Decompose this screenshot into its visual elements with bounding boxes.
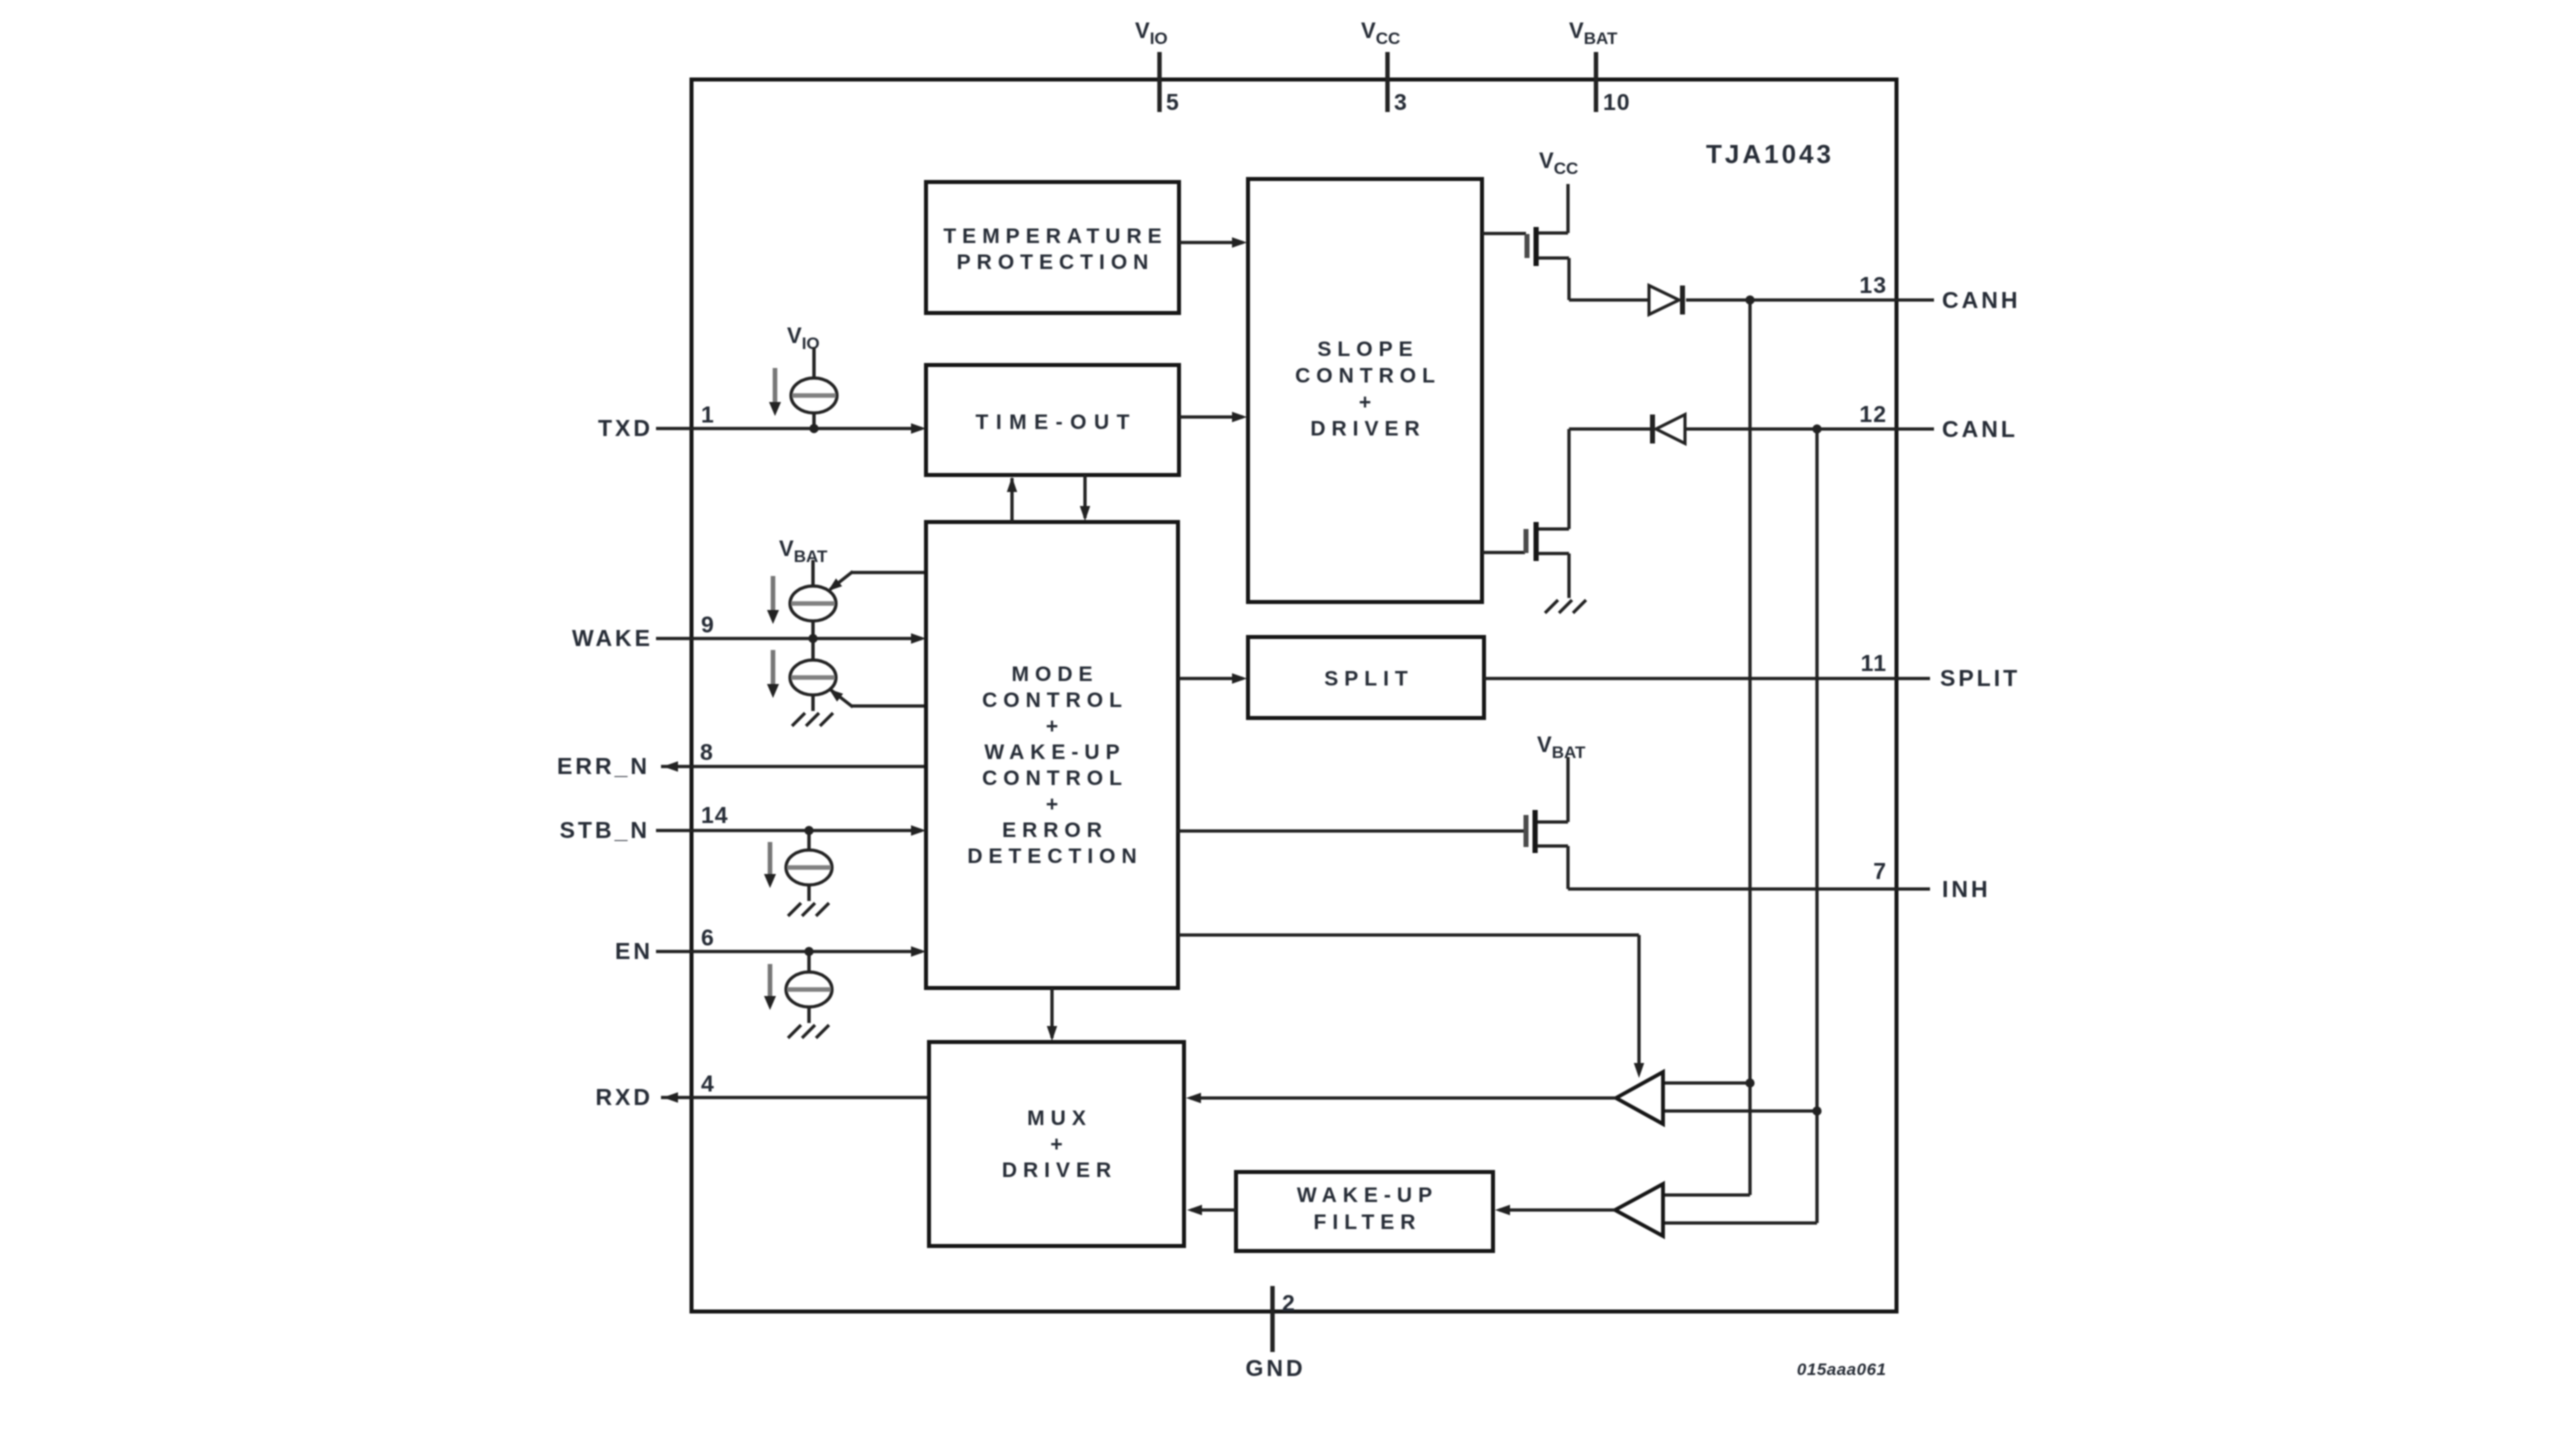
svg-text:CONTROL: CONTROL (982, 767, 1128, 790)
svg-text:WAKE: WAKE (572, 625, 653, 651)
svg-text:GND: GND (1245, 1355, 1305, 1381)
svg-text:SLOPE: SLOPE (1317, 338, 1418, 361)
svg-text:FILTER: FILTER (1314, 1211, 1422, 1234)
svg-text:9: 9 (701, 612, 715, 638)
svg-text:3: 3 (1394, 89, 1408, 115)
svg-text:ERROR: ERROR (1002, 819, 1108, 842)
svg-text:4: 4 (701, 1071, 715, 1097)
svg-text:CONTROL: CONTROL (982, 689, 1128, 712)
svg-text:2: 2 (1282, 1290, 1296, 1316)
svg-text:5: 5 (1166, 89, 1180, 115)
svg-text:14: 14 (701, 802, 729, 828)
svg-text:WAKE-UP: WAKE-UP (984, 741, 1125, 764)
svg-text:CANH: CANH (1942, 287, 2020, 313)
svg-text:MODE: MODE (1012, 663, 1099, 686)
svg-text:STB_N: STB_N (560, 817, 650, 843)
svg-text:11: 11 (1861, 650, 1887, 676)
svg-text:EN: EN (615, 938, 653, 964)
svg-text:RXD: RXD (595, 1084, 653, 1110)
svg-text:7: 7 (1873, 858, 1887, 884)
svg-text:TEMPERATURE: TEMPERATURE (943, 225, 1167, 248)
svg-text:ERR_N: ERR_N (557, 753, 650, 779)
svg-text:DETECTION: DETECTION (967, 845, 1142, 868)
svg-text:13: 13 (1859, 272, 1887, 298)
svg-text:+: + (1046, 793, 1064, 816)
svg-text:PROTECTION: PROTECTION (957, 251, 1155, 274)
svg-text:MUX: MUX (1027, 1107, 1092, 1130)
svg-text:SPLIT: SPLIT (1940, 665, 2020, 691)
svg-text:TXD: TXD (598, 415, 653, 441)
svg-text:10: 10 (1603, 89, 1631, 115)
svg-text:INH: INH (1942, 876, 1991, 902)
svg-text:1: 1 (701, 402, 715, 428)
svg-text:TJA1043: TJA1043 (1706, 139, 1834, 169)
svg-text:CONTROL: CONTROL (1295, 365, 1441, 388)
svg-text:6: 6 (701, 925, 715, 951)
svg-text:8: 8 (700, 739, 714, 765)
svg-text:+: + (1046, 715, 1064, 738)
svg-text:+: + (1359, 391, 1377, 414)
svg-text:DRIVER: DRIVER (1310, 418, 1425, 441)
svg-text:TIME-OUT: TIME-OUT (976, 411, 1137, 434)
svg-text:CANL: CANL (1942, 416, 2018, 442)
svg-text:WAKE-UP: WAKE-UP (1297, 1184, 1438, 1207)
svg-text:SPLIT: SPLIT (1324, 668, 1414, 691)
svg-text:12: 12 (1859, 401, 1887, 427)
svg-text:DRIVER: DRIVER (1002, 1159, 1117, 1182)
svg-text:015aaa061: 015aaa061 (1797, 1360, 1887, 1379)
svg-text:+: + (1050, 1133, 1068, 1156)
